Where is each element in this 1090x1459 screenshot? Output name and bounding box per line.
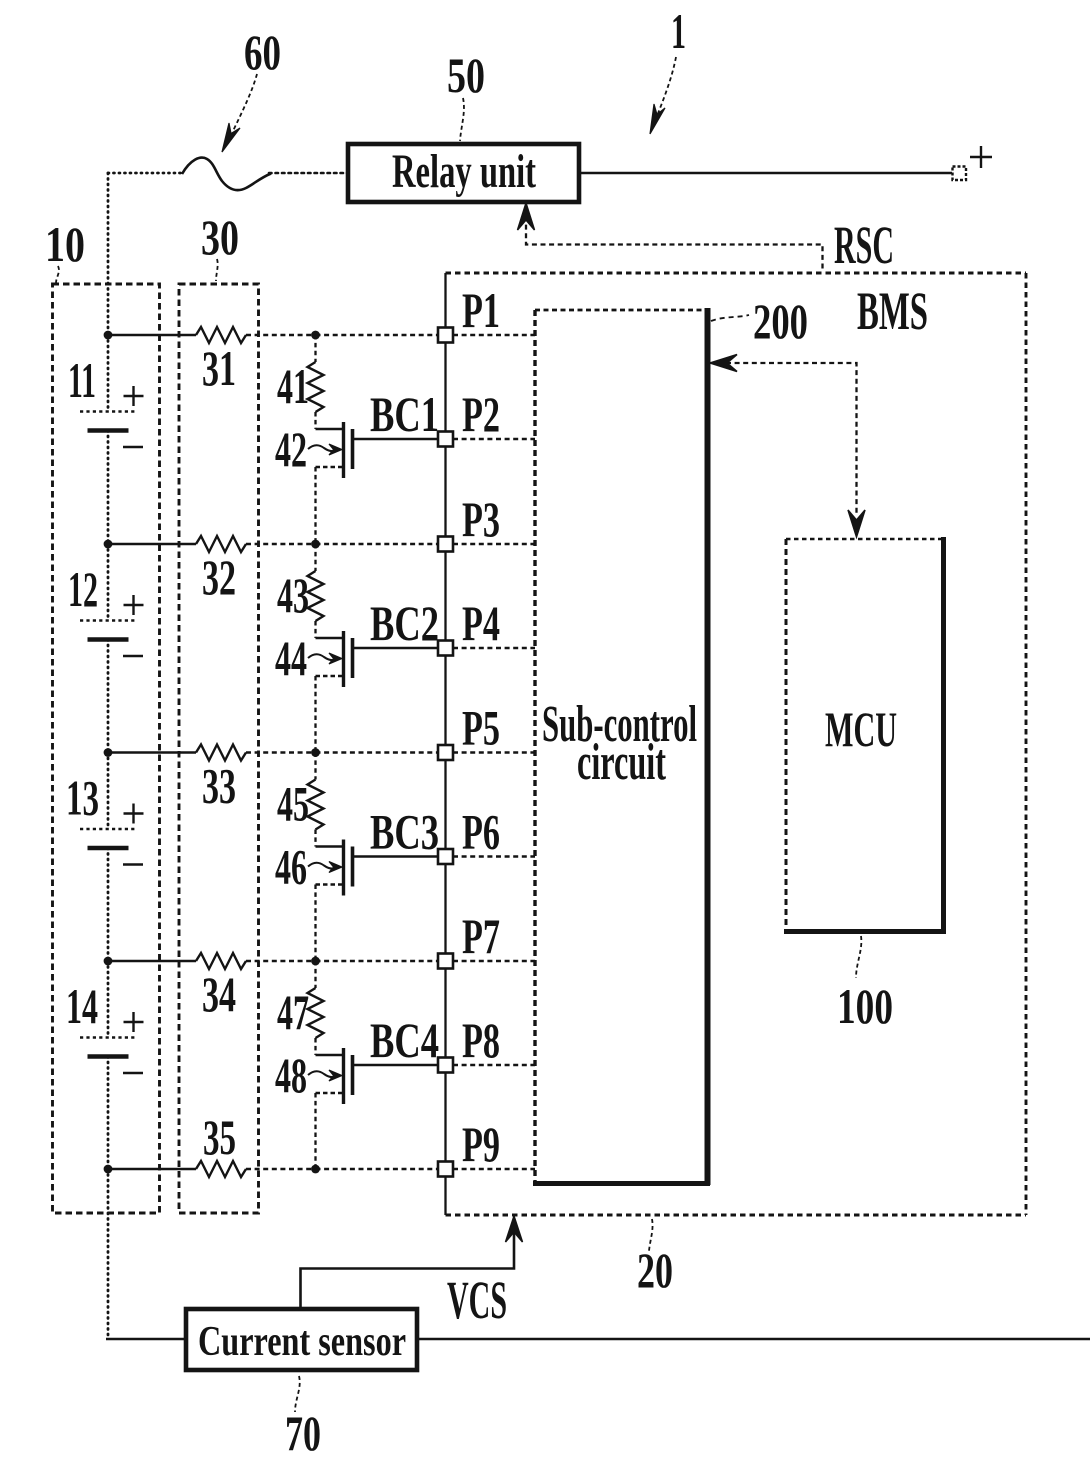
svg-text:60: 60 — [244, 24, 281, 80]
svg-text:50: 50 — [447, 47, 485, 103]
battery cell 11 plus sign — [124, 395, 144, 397]
wire node to resistor 31 — [108, 334, 196, 336]
svg-text:P4: P4 — [462, 595, 500, 651]
svg-text:P9: P9 — [462, 1116, 500, 1172]
battery cell 14 negative plate (short thick) — [88, 1054, 129, 1059]
transistor 44 source lead — [316, 675, 344, 677]
svg-text:BC3: BC3 — [370, 804, 439, 860]
svg-text:P8: P8 — [462, 1012, 500, 1068]
resistor 31 — [196, 327, 246, 343]
label 20 pointer tick — [649, 1219, 653, 1251]
svg-text:34: 34 — [202, 966, 236, 1022]
pin P2 square terminal — [438, 432, 453, 447]
wire resistor 45 to transistor 46 — [314, 830, 316, 847]
svg-text:35: 35 — [203, 1109, 236, 1165]
battery cell 12 negative plate (short thick) — [88, 637, 129, 642]
node battery tap junction row P3 — [104, 540, 113, 549]
wire transistor 48 source to next chain node — [314, 1093, 316, 1169]
wire resistor 47 to transistor 48 — [314, 1038, 316, 1055]
BMS box bottom edge — [446, 1213, 1027, 1216]
battery pack dashed box 10 — [53, 284, 160, 1213]
transistor 46 source lead — [316, 883, 344, 885]
positive terminal square — [953, 167, 967, 181]
wire VCS current sensor to BMS — [301, 1226, 515, 1308]
wire pin P6 to sub-control circuit — [453, 855, 535, 857]
wire MCU to sub-control circuit — [726, 363, 857, 515]
resistor 45 — [308, 780, 324, 830]
battery cell 14 positive plate (long) — [80, 1036, 135, 1039]
node chain junction row P3 — [311, 540, 320, 549]
BMS box right edge — [1025, 273, 1028, 1215]
wire battery negative down to current sensor — [107, 1169, 110, 1339]
wire battery positive to relay (horizontal, left of break) — [108, 172, 184, 175]
wire transistor 48 gate to pin P8 — [354, 1064, 438, 1066]
battery cell 14 minus sign — [123, 1072, 143, 1074]
wire chain node to resistor 45 — [314, 753, 316, 780]
wire resistor 41 to transistor 42 — [314, 412, 316, 429]
pin P6 square terminal — [438, 849, 453, 864]
MCU box left edge — [785, 539, 788, 931]
wire pin P8 to sub-control circuit — [453, 1064, 535, 1066]
wire transistor 44 source to next chain node — [314, 676, 316, 753]
resistor 32 — [196, 536, 246, 552]
svg-text:30: 30 — [201, 209, 239, 265]
svg-text:44: 44 — [275, 630, 307, 686]
node chain junction row P5 — [311, 748, 320, 757]
wire transistor 46 gate to pin P6 — [354, 855, 438, 857]
wire chain junction to pin P9 — [316, 1168, 439, 1170]
wire transistor 42 source to next chain node — [314, 467, 316, 544]
svg-text:42: 42 — [275, 421, 307, 477]
svg-text:Current sensor: Current sensor — [198, 1319, 406, 1365]
MCU box right edge — [941, 537, 946, 933]
battery cell 12 wire from node to plate — [107, 544, 110, 620]
svg-text:13: 13 — [66, 770, 99, 826]
transistor 44 gate bar — [351, 638, 355, 678]
svg-text:BMS: BMS — [857, 281, 928, 341]
wire resistor 34 to chain junction — [246, 960, 316, 962]
pin P5 square terminal — [438, 745, 453, 760]
transistor 44 drain lead — [316, 637, 344, 639]
battery cell 13 positive plate (long) — [80, 828, 135, 831]
wire resistor 43 to transistor 44 — [314, 621, 316, 638]
battery cell 14 wire from node to plate — [107, 961, 110, 1037]
battery cell 13 negative plate (short thick) — [88, 846, 129, 851]
wire pin P5 to sub-control circuit — [453, 751, 535, 753]
wire chain node to resistor 47 — [314, 961, 316, 988]
wire pin P2 to sub-control circuit — [453, 438, 535, 440]
label 60 pointer arrow — [233, 74, 257, 131]
wire chain junction to pin P1 — [316, 334, 439, 336]
battery cell 14 plus sign — [124, 1021, 144, 1023]
battery cell 12 wire from plate to next node — [107, 640, 110, 753]
svg-text:VCS: VCS — [447, 1270, 507, 1330]
svg-text:P3: P3 — [462, 491, 500, 547]
pin P4 square terminal — [438, 641, 453, 656]
transistor 46 drain lead — [316, 845, 344, 847]
label 200 pointer dash — [711, 315, 749, 321]
node battery tap junction row P1 — [104, 331, 113, 340]
node chain junction row P9 — [311, 1165, 320, 1174]
svg-text:43: 43 — [277, 567, 309, 623]
transistor 42 channel bar — [342, 422, 345, 478]
wire node to resistor 35 — [108, 1168, 196, 1170]
wire chain node to resistor 43 — [314, 544, 316, 571]
wire battery positive to relay (vertical) — [107, 173, 110, 335]
wire transistor 44 gate to pin P4 — [354, 647, 438, 649]
node battery tap junction row P9 — [104, 1165, 113, 1174]
transistor 44 label pointer arrow — [308, 654, 338, 660]
node RSC wire from BMS to relay — [526, 216, 823, 271]
wire pin P3 to sub-control circuit — [453, 543, 535, 545]
svg-text:P5: P5 — [462, 700, 500, 756]
pin P7 square terminal — [438, 954, 453, 969]
label 70 pointer tick — [295, 1376, 300, 1412]
svg-text:circuit: circuit — [577, 734, 666, 791]
transistor 46 label pointer arrow — [308, 863, 338, 869]
resistor 35 — [196, 1161, 246, 1177]
label 50 pointer tick — [460, 98, 464, 141]
sense resistor dashed box 30 — [179, 284, 259, 1213]
wire current sensor to pack negative terminal — [417, 1338, 1090, 1340]
svg-text:11: 11 — [68, 352, 96, 408]
resistor 41 — [308, 362, 324, 412]
MCU box top edge — [786, 538, 943, 541]
svg-text:70: 70 — [285, 1405, 321, 1459]
wire resistor 33 to chain junction — [246, 751, 316, 753]
battery cell 13 wire from plate to next node — [107, 848, 110, 961]
svg-text:RSC: RSC — [834, 215, 894, 275]
svg-text:46: 46 — [275, 839, 307, 895]
wire chain junction to pin P3 — [316, 543, 439, 545]
transistor 42 drain lead — [316, 428, 344, 430]
wire current sensor to battery negative — [106, 1338, 186, 1340]
transistor 46 gate bar — [351, 847, 355, 887]
transistor 44 channel bar — [342, 631, 345, 687]
relay unit box U50 — [348, 144, 579, 202]
sub-control circuit box right edge — [705, 308, 711, 1185]
wire transistor 42 gate to pin P2 — [354, 438, 438, 440]
svg-text:Relay unit: Relay unit — [392, 145, 536, 198]
current sensor box U70 — [186, 1309, 417, 1370]
svg-text:200: 200 — [753, 293, 808, 349]
resistor 47 — [308, 988, 324, 1038]
battery cell 11 positive plate (long) — [80, 410, 135, 413]
arrowhead VCS into BMS bottom edge — [506, 1216, 523, 1242]
pin P9 square terminal — [438, 1162, 453, 1177]
transistor 42 source lead — [316, 466, 344, 468]
resistor 34 — [196, 953, 246, 969]
wire chain junction to pin P7 — [316, 960, 439, 962]
wire pin P7 to sub-control circuit — [453, 960, 535, 962]
wire transistor 46 source to next chain node — [314, 885, 316, 962]
label 10 pointer tick — [56, 266, 59, 283]
svg-text:33: 33 — [202, 758, 236, 814]
battery cell 14 wire from plate to next node — [107, 1057, 110, 1170]
wire pin P4 to sub-control circuit — [453, 647, 535, 649]
transistor 46 channel bar — [342, 840, 345, 896]
wire node to resistor 34 — [108, 960, 196, 962]
svg-text:14: 14 — [66, 978, 98, 1034]
battery cell 12 positive plate (long) — [80, 619, 135, 622]
svg-text:12: 12 — [68, 561, 98, 617]
battery cell 12 plus sign — [124, 604, 144, 606]
svg-text:P1: P1 — [462, 282, 500, 338]
wire chain junction to pin P5 — [316, 751, 439, 753]
wire resistor 31 to chain junction — [246, 334, 316, 336]
svg-text:10: 10 — [45, 216, 85, 272]
battery cell 13 minus sign — [123, 863, 143, 865]
transistor 42 gate bar — [351, 429, 355, 469]
svg-text:45: 45 — [277, 776, 309, 832]
transistor 42 label pointer arrow — [308, 445, 338, 451]
svg-text:P7: P7 — [462, 908, 500, 964]
battery cell 13 plus sign — [124, 812, 144, 814]
battery cell 12 minus sign — [123, 655, 143, 657]
pin P1 square terminal — [438, 328, 453, 343]
wire break squiggle (fuse/disconnect point 60) — [182, 158, 271, 191]
pin P8 square terminal — [438, 1058, 453, 1073]
transistor 48 drain lead — [316, 1054, 344, 1056]
node chain junction row P1 — [311, 331, 320, 340]
positive terminal + sign — [970, 156, 992, 158]
svg-text:MCU: MCU — [825, 701, 897, 757]
sub-control circuit box left edge — [533, 310, 536, 1183]
label 30 pointer tick — [216, 259, 218, 281]
battery cell 11 wire from plate to next node — [107, 431, 110, 545]
svg-text:BC4: BC4 — [370, 1012, 439, 1068]
arrowhead into MCU top edge — [848, 510, 865, 537]
label 1 pointer arrow — [657, 57, 676, 116]
sub-control circuit box bottom edge — [533, 1181, 710, 1186]
wire relay unit to positive terminal — [579, 172, 952, 174]
transistor 48 source lead — [316, 1092, 344, 1094]
arrowhead into sub-control circuit right edge — [710, 355, 737, 372]
wire break to relay unit (dashed) — [269, 172, 348, 175]
node battery tap junction row P5 — [104, 748, 113, 757]
wire node to resistor 32 — [108, 543, 196, 545]
svg-text:P6: P6 — [462, 804, 500, 860]
svg-text:31: 31 — [202, 340, 236, 396]
battery cell 11 wire from node to plate — [107, 335, 110, 411]
transistor 48 label pointer arrow — [308, 1071, 338, 1077]
wire pin P1 to sub-control circuit — [453, 334, 535, 336]
arrowhead into relay unit bottom — [518, 203, 535, 230]
svg-text:BC2: BC2 — [370, 595, 439, 651]
svg-text:1: 1 — [671, 3, 686, 59]
svg-text:100: 100 — [837, 978, 893, 1034]
battery cell 11 minus sign — [123, 446, 143, 448]
wire resistor 35 to chain junction — [246, 1168, 316, 1170]
svg-text:48: 48 — [275, 1047, 307, 1103]
svg-text:BC1: BC1 — [370, 386, 439, 442]
sub-control circuit box top edge — [535, 309, 707, 312]
transistor 48 gate bar — [351, 1055, 355, 1095]
pin P3 square terminal — [438, 537, 453, 552]
svg-text:20: 20 — [637, 1242, 673, 1298]
svg-text:P2: P2 — [462, 386, 500, 442]
node chain junction row P7 — [311, 957, 320, 966]
label 100 pointer tick — [856, 936, 861, 978]
wire resistor 32 to chain junction — [246, 543, 316, 545]
wire node to resistor 33 — [108, 751, 196, 753]
BMS box left edge / pin bus wire — [444, 273, 446, 1215]
svg-text:32: 32 — [202, 549, 236, 605]
MCU box bottom edge — [784, 929, 946, 934]
wire chain node to resistor 41 — [314, 335, 316, 362]
battery cell 13 wire from node to plate — [107, 753, 110, 829]
svg-text:47: 47 — [277, 984, 309, 1040]
node battery tap junction row P7 — [104, 957, 113, 966]
battery cell 11 negative plate (short thick) — [88, 428, 129, 433]
transistor 48 channel bar — [342, 1048, 345, 1104]
resistor 43 — [308, 571, 324, 621]
resistor 33 — [196, 745, 246, 761]
svg-text:41: 41 — [277, 358, 309, 414]
wire pin P9 to sub-control circuit — [453, 1168, 535, 1170]
BMS box top edge — [446, 272, 1027, 275]
